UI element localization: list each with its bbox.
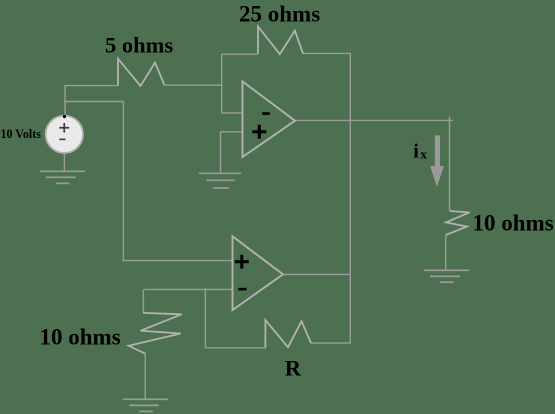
svg-text:10 Volts: 10 Volts	[1, 127, 42, 141]
svg-text:10 ohms: 10 ohms	[473, 211, 554, 236]
svg-text:i: i	[413, 141, 419, 163]
svg-text:10 ohms: 10 ohms	[40, 325, 121, 350]
svg-text:R: R	[285, 355, 302, 380]
svg-text:25 ohms: 25 ohms	[239, 1, 320, 26]
svg-text:5 ohms: 5 ohms	[105, 33, 173, 58]
svg-text:x: x	[420, 147, 427, 162]
